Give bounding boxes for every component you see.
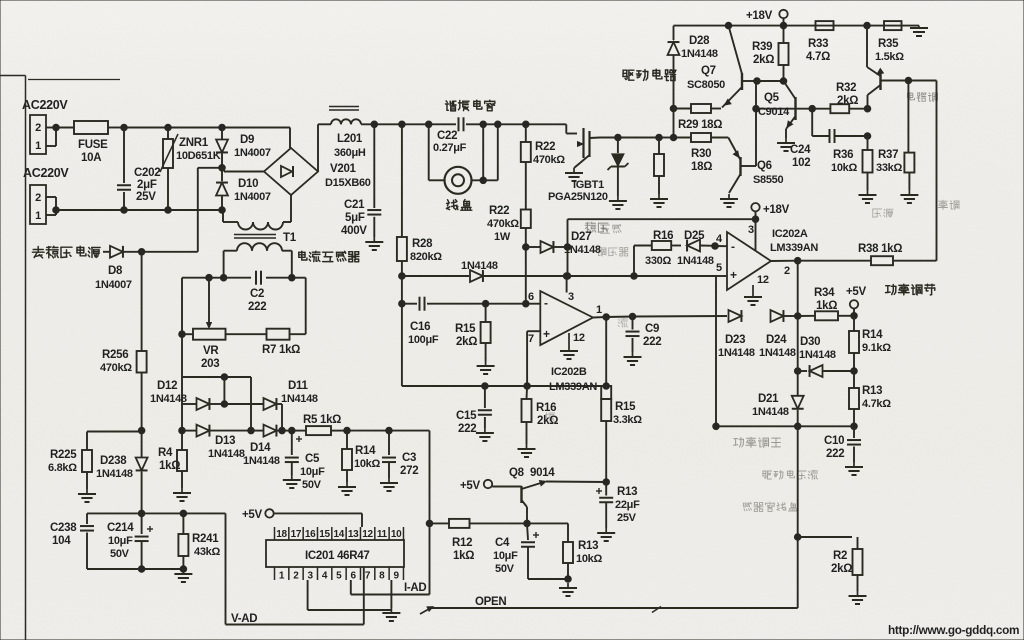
wire VR right rail xyxy=(305,278,307,335)
node +18 IC202A xyxy=(752,216,759,223)
resistor R15b xyxy=(601,317,611,482)
node R256 bottom xyxy=(138,427,145,434)
label C4 volt xyxy=(495,563,515,575)
label IC202B pin1 xyxy=(596,304,602,316)
node Vaux xyxy=(138,510,145,517)
label R36 xyxy=(833,149,853,161)
node R12 in xyxy=(426,520,433,527)
node out-C9 xyxy=(629,313,636,320)
ground IC202A pin12 xyxy=(744,285,762,305)
label IC202A type xyxy=(770,242,818,254)
wire R5 bus xyxy=(347,430,430,432)
label C5 value xyxy=(300,466,325,478)
node R31 tap xyxy=(656,134,663,141)
label D10 xyxy=(238,178,258,190)
node C2 left xyxy=(220,274,227,281)
label R16b xyxy=(536,402,556,414)
ground C15 xyxy=(476,428,494,441)
label IC202B xyxy=(551,366,587,378)
label R13b value xyxy=(615,499,640,511)
node D30 left xyxy=(794,368,801,375)
resistor R33 xyxy=(816,21,834,30)
node R32 in xyxy=(809,105,816,112)
node C4 gnd xyxy=(565,576,572,583)
wire C2 rail xyxy=(182,277,306,279)
label R225 value xyxy=(48,462,77,474)
transistor Q8 xyxy=(492,481,546,524)
diode D28 xyxy=(668,26,680,109)
label C214 xyxy=(107,522,134,534)
node coil right join xyxy=(480,177,487,184)
label L201 xyxy=(337,133,363,145)
label R33 value xyxy=(806,51,830,63)
op-amp IC202B xyxy=(540,291,593,345)
label IC202B pin7 xyxy=(528,333,534,345)
node D10 anode xyxy=(219,207,226,214)
node R15a top xyxy=(482,300,489,307)
node D12 out xyxy=(221,401,228,408)
node D8 out xyxy=(138,249,145,256)
label IC202B pin3 xyxy=(568,291,574,303)
ground aux rail xyxy=(174,569,192,582)
transformer T1 core xyxy=(234,235,276,239)
label 10A xyxy=(81,152,101,164)
tick on OPEN line xyxy=(652,607,661,613)
label R13c xyxy=(862,385,882,397)
label R2 xyxy=(833,550,847,562)
capacitor C22 xyxy=(459,117,464,131)
ground R36 xyxy=(859,190,877,203)
label D23 value xyxy=(718,347,755,359)
label C10 value xyxy=(826,448,844,460)
wire C16 to pin6 xyxy=(486,303,541,305)
node R30 in xyxy=(670,134,677,141)
label IC202A pin3 xyxy=(748,224,754,236)
capacitor C214 polarized xyxy=(135,513,153,569)
node coil left tap xyxy=(425,121,432,128)
label R22b watt xyxy=(494,231,511,243)
label C15 value xyxy=(458,423,476,435)
label D13 xyxy=(215,435,235,447)
resistor R39 xyxy=(779,26,789,81)
diode D238 xyxy=(136,431,148,514)
label qudong-dianlu xyxy=(623,69,676,80)
capacitor C10 xyxy=(847,426,861,462)
ground R15a xyxy=(477,361,495,374)
wire QX base col xyxy=(867,136,869,150)
node R16a tap xyxy=(631,273,638,280)
label VR xyxy=(203,345,219,357)
label D10 value xyxy=(234,191,271,203)
label R16a value xyxy=(645,255,671,267)
capacitor C5 polarized xyxy=(285,431,302,475)
ghost g4 xyxy=(763,470,818,479)
inductor L201 xyxy=(329,107,361,125)
label C2 value xyxy=(248,301,266,313)
diode D9 xyxy=(216,128,228,168)
label R13b volt xyxy=(617,512,637,524)
capacitor C16 xyxy=(402,297,486,311)
terminal +18V top xyxy=(779,10,787,26)
resistor R7 xyxy=(226,329,306,340)
label IC202A pin2 xyxy=(784,265,790,277)
diode D13 xyxy=(182,425,251,437)
label R13a xyxy=(578,540,598,552)
ghost g8 xyxy=(545,412,554,421)
label R34 xyxy=(814,287,835,299)
ground IC201 xyxy=(382,608,400,621)
transformer T1 primary xyxy=(238,195,291,230)
label ZNR1 xyxy=(179,137,209,149)
capacitor C21 xyxy=(367,124,381,237)
label C3 value xyxy=(400,465,418,477)
label D21 xyxy=(758,393,779,405)
wire D28-R30 xyxy=(673,109,675,138)
label R15a value xyxy=(456,336,477,348)
capacitor C2 xyxy=(224,271,292,285)
resistor R13a xyxy=(563,542,573,579)
label I-AD xyxy=(404,582,426,594)
label D23 xyxy=(725,334,745,346)
wire OPEN line xyxy=(420,607,798,614)
ground C10 xyxy=(845,462,863,475)
label D30 xyxy=(800,336,820,348)
wire AC bottom rail xyxy=(56,209,223,211)
transformer T1 secondary xyxy=(224,243,292,278)
label C22 value xyxy=(433,142,467,154)
ground C21 xyxy=(365,237,383,250)
node R39 bottom xyxy=(780,78,787,85)
label D28 value xyxy=(681,48,718,60)
label T1 xyxy=(283,232,297,244)
resistor R12 xyxy=(430,519,528,528)
label D11 xyxy=(288,380,308,392)
resistor R30 xyxy=(691,133,728,142)
node C3 top xyxy=(386,427,393,434)
label +5V left xyxy=(242,509,263,521)
label D9 xyxy=(240,134,254,146)
diode D12 xyxy=(182,398,224,410)
label C238 value xyxy=(52,535,71,547)
label IGBT1 xyxy=(573,179,604,191)
node D9 top xyxy=(219,124,226,131)
node out-R15b xyxy=(603,314,610,321)
node R28 tap xyxy=(399,121,406,128)
label D12 value xyxy=(150,393,187,405)
wire R225 branch xyxy=(87,432,142,451)
label R15a xyxy=(455,323,476,335)
wire AC to T1 primary xyxy=(223,210,238,222)
label R15b xyxy=(615,401,636,413)
ground R4 xyxy=(173,488,191,501)
wire CN1 stubs xyxy=(46,128,56,147)
terminal +5V Q8 xyxy=(484,480,492,488)
label C238 xyxy=(50,522,77,534)
label R7 xyxy=(262,344,300,356)
label dianliu-hugan-qi xyxy=(299,251,359,262)
label V201 type xyxy=(325,177,371,189)
label R39 xyxy=(752,41,772,53)
node D30 right xyxy=(851,368,858,375)
label R37 value xyxy=(876,162,902,174)
node R29 in xyxy=(670,105,677,112)
node R14a top xyxy=(344,427,351,434)
node C15 top xyxy=(482,383,489,390)
wire comp1 down xyxy=(797,261,799,316)
wire V-AD xyxy=(226,513,364,624)
label D15 value xyxy=(461,260,498,272)
ghost g6 xyxy=(873,209,893,217)
ground IC202B pin12 xyxy=(560,333,578,359)
label D11 value xyxy=(281,393,318,405)
node rail-R15b xyxy=(603,383,610,390)
wire comp2 out xyxy=(593,316,727,318)
transistor Q7 xyxy=(722,26,757,108)
wire resonant bus xyxy=(361,123,566,125)
node C2 right xyxy=(289,274,296,281)
ic IC201 46R47 xyxy=(266,540,404,567)
wire bridge left to D9-D10 xyxy=(222,168,264,172)
label C24 xyxy=(790,144,811,156)
node R28 bottom xyxy=(399,273,406,280)
label R241 xyxy=(192,533,219,545)
page margin line xyxy=(25,76,27,640)
label xiezhen-dianrong xyxy=(446,100,495,111)
ghost g2 xyxy=(907,92,937,101)
label +5V Q8 xyxy=(460,480,481,492)
wire comp1 out xyxy=(771,260,798,262)
capacitor C3 xyxy=(382,431,396,478)
label C4 value xyxy=(493,550,518,562)
label +5V right xyxy=(846,286,867,298)
label C214 value xyxy=(108,535,133,547)
node R2 tap xyxy=(794,534,801,541)
label VR value xyxy=(201,358,219,370)
label D8 value xyxy=(95,279,132,291)
label IC202A xyxy=(772,228,808,240)
capacitor C4 polarized xyxy=(521,523,539,579)
label R12 value xyxy=(453,550,474,562)
resistor R2 xyxy=(798,537,863,591)
ground R14a xyxy=(338,482,356,495)
label D13 value xyxy=(208,448,245,460)
label R14a xyxy=(355,445,376,457)
wire D21 col down xyxy=(797,426,799,608)
diode D21 xyxy=(792,371,804,426)
wire coil right leads xyxy=(472,124,498,180)
resistor R4 xyxy=(177,450,187,488)
resistor R225 xyxy=(82,450,92,489)
node CN1 out xyxy=(53,124,60,131)
wire Vcc IC202A xyxy=(755,219,757,250)
node zener tap xyxy=(615,134,622,141)
wire gate step xyxy=(566,124,577,133)
capacitor C238 xyxy=(80,513,94,569)
resistor R241 xyxy=(178,513,188,569)
ground C9 xyxy=(624,352,642,365)
label R14b value xyxy=(862,342,891,354)
label R13a value xyxy=(576,553,602,565)
label C10 xyxy=(824,435,844,447)
resistor R256 xyxy=(137,252,147,431)
diode D27 xyxy=(526,241,568,253)
resistor R22 1W xyxy=(521,210,531,248)
node Q5 base junction xyxy=(753,105,760,112)
label C24 value xyxy=(792,157,810,169)
label D27 xyxy=(571,231,591,243)
wire D8 to rectifier mid xyxy=(142,168,222,252)
ic IC201 top pins xyxy=(275,527,404,540)
ground zener xyxy=(609,196,627,209)
ghost g5 xyxy=(743,502,797,511)
label R30 xyxy=(691,148,711,160)
connector CN1 xyxy=(30,115,46,154)
label D25 value xyxy=(677,255,714,267)
label C202 xyxy=(134,167,160,179)
node C24 out xyxy=(864,133,871,140)
label R37 xyxy=(878,149,898,161)
label D12 xyxy=(157,380,177,392)
label Q5 xyxy=(764,92,780,104)
wire base bus xyxy=(756,81,784,166)
ghost g11 xyxy=(938,200,959,209)
node D27 cathode xyxy=(564,244,571,251)
label R12 xyxy=(452,537,472,549)
node R34-+5V xyxy=(851,313,858,320)
node Q8 collector xyxy=(524,520,531,527)
ic IC201 bottom pins xyxy=(275,567,404,582)
node fuse-C202 xyxy=(121,124,128,131)
diode D14 xyxy=(251,425,292,437)
resistor R29 xyxy=(674,104,722,113)
label C21 volt xyxy=(341,225,367,237)
label url xyxy=(888,623,1019,637)
label R32 xyxy=(836,82,856,94)
terminal +18V mid xyxy=(751,203,759,219)
label C5 volt xyxy=(302,479,322,491)
node rail R39 xyxy=(780,22,787,29)
label C2 xyxy=(250,288,264,300)
ground C5 xyxy=(283,475,301,488)
label C5 xyxy=(305,453,320,465)
label C16 value xyxy=(408,334,439,346)
wire pin5 sense xyxy=(716,276,854,426)
label L201 value xyxy=(334,147,366,159)
ground R31 xyxy=(650,194,668,207)
wire +5V to pin12 xyxy=(274,513,362,527)
wire VR left rail xyxy=(182,278,193,450)
label FUSE xyxy=(78,139,108,151)
wire Vaux rail xyxy=(87,512,226,514)
resistor R16a xyxy=(634,241,681,276)
zener D26 xyxy=(608,138,629,197)
label D24 xyxy=(766,334,787,346)
label R14b xyxy=(862,329,883,341)
label C214 volt xyxy=(110,548,130,560)
ghost g9 xyxy=(601,224,622,233)
wire jog 377 xyxy=(182,377,251,431)
label R5 xyxy=(303,414,341,426)
ground R16b xyxy=(518,444,536,457)
label R22a xyxy=(535,141,555,153)
wire I-AD xyxy=(351,580,430,595)
label R32 value xyxy=(837,95,858,107)
label Q6 xyxy=(757,160,772,172)
transistor IGBT1 xyxy=(574,128,600,168)
diode D8 xyxy=(103,246,142,258)
wire pin3 Vcc xyxy=(566,276,568,293)
label R36 value xyxy=(831,162,857,174)
diode D15 xyxy=(402,270,567,282)
resistor R38 xyxy=(798,256,937,265)
node coil right tap2 xyxy=(495,121,502,128)
label R2 value xyxy=(831,563,852,575)
node aux gnd1 xyxy=(138,566,145,573)
node pin6 junction xyxy=(523,300,530,307)
wire pin7 feed xyxy=(527,331,540,386)
node D13 out xyxy=(248,427,255,434)
resistor R36 xyxy=(863,150,873,190)
node D9-D10 junction xyxy=(219,165,226,172)
node aux gnd2 xyxy=(180,566,187,573)
wire coil left lead xyxy=(429,124,445,180)
node R241 top xyxy=(180,510,187,517)
ghost g7 xyxy=(618,318,627,327)
ghost g1 xyxy=(585,222,608,232)
label IC202B pin6 xyxy=(528,291,534,303)
resistor R28 xyxy=(397,124,407,277)
label C9 value xyxy=(643,336,661,348)
node comp1 out xyxy=(794,257,801,264)
resistor R22 gate xyxy=(521,124,531,209)
wire CN2 stubs xyxy=(46,197,56,215)
wire pin4 xyxy=(715,245,727,247)
node R37 top xyxy=(905,77,912,84)
resistor R32 xyxy=(796,104,868,113)
label D24 value xyxy=(759,347,796,359)
label R13b xyxy=(617,486,637,498)
ground R37 xyxy=(900,190,918,203)
label R13c value xyxy=(862,398,891,410)
wire feedback down xyxy=(936,81,938,261)
node D14 out xyxy=(289,427,296,434)
diode D24 xyxy=(771,310,798,322)
op-amp IC202A xyxy=(727,232,771,290)
wire D27 down xyxy=(567,247,569,276)
wire R12 bus right xyxy=(527,523,568,542)
wire QX base bus xyxy=(908,80,936,82)
node VR left xyxy=(179,331,186,338)
ground Q5 xyxy=(777,138,795,151)
capacitor C202 xyxy=(117,128,131,211)
resistor R34 xyxy=(798,311,854,320)
capacitor C15 xyxy=(478,386,492,428)
node C16 left xyxy=(399,300,406,307)
label R15b value xyxy=(613,414,642,426)
node C10 top xyxy=(851,423,858,430)
node D24 out xyxy=(794,313,801,320)
label Q7 xyxy=(701,65,716,77)
wire pin9 gnd xyxy=(390,580,392,608)
diode D30 xyxy=(798,365,854,377)
diode D23 xyxy=(729,310,742,322)
label V-AD xyxy=(231,613,257,625)
node D27 anode xyxy=(523,244,530,251)
bridge rectifier V201 xyxy=(264,148,318,195)
label R16a xyxy=(653,230,673,242)
wire aux bottom rail xyxy=(87,568,183,570)
node Q7 base xyxy=(754,78,761,85)
